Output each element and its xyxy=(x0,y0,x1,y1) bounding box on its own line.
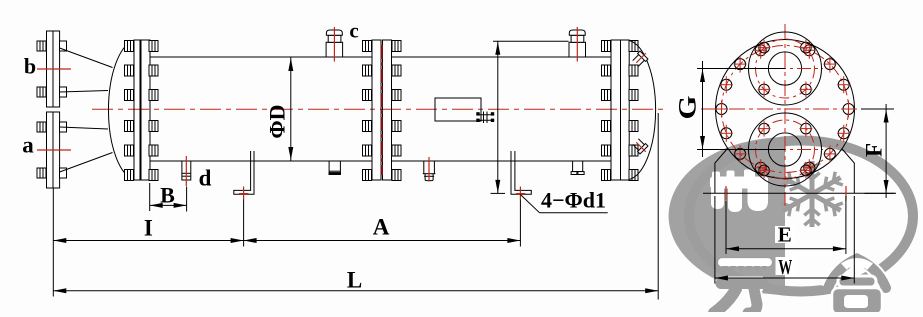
right head lower diagonal nozzle xyxy=(632,138,650,156)
end view saddle xyxy=(715,149,854,194)
end view anchor bolt marks xyxy=(725,186,727,201)
nozzle a bolts xyxy=(37,122,46,132)
nozzle c1 cap xyxy=(326,30,342,35)
end view base line xyxy=(703,192,896,194)
dimension I line xyxy=(53,240,243,242)
nozzle d centerline xyxy=(185,156,187,186)
nozzle b centerline xyxy=(37,68,71,70)
end view shell flange bolt holes xyxy=(715,42,855,176)
main shell centerline xyxy=(92,108,664,110)
svg-text:G: G xyxy=(675,96,702,120)
watermark character wan xyxy=(714,258,773,314)
svg-text:c: c xyxy=(349,19,358,43)
dimension W line xyxy=(715,277,854,279)
watermark gray left half of ellipse logo xyxy=(669,137,785,295)
left flange bolts xyxy=(125,41,134,52)
nozzle b bolts xyxy=(37,41,46,51)
nozzle a centerline xyxy=(37,149,71,151)
leader 4-Phid1 xyxy=(520,195,539,213)
svg-text:ΦD: ΦD xyxy=(265,104,290,138)
dimension E line xyxy=(726,248,846,250)
nozzle b flange plates xyxy=(47,31,54,107)
left flange plates xyxy=(134,40,140,180)
nozzle c2 neck xyxy=(569,42,586,57)
svg-text:4−Φd1: 4−Φd1 xyxy=(541,188,606,213)
nozzle b taper lines xyxy=(60,48,113,68)
svg-text:L: L xyxy=(347,267,362,292)
nameplate rectangle xyxy=(435,98,481,121)
nozzle c2 cap xyxy=(569,30,585,35)
end view top nozzle flange bolt holes xyxy=(758,40,813,98)
nozzle c1 centerline xyxy=(333,27,335,62)
nozzle c1 pipe xyxy=(328,35,341,42)
svg-text:d: d xyxy=(199,166,212,191)
dimension L line xyxy=(53,290,658,292)
dimension A extension lines xyxy=(243,200,245,247)
svg-text:I: I xyxy=(144,216,153,241)
svg-text:B: B xyxy=(160,183,175,208)
end view vertical centerline xyxy=(784,24,786,206)
end view bottom nozzle flange bolt holes xyxy=(758,121,813,179)
dimension G extension lines xyxy=(697,68,785,70)
middle flange gasket centerline xyxy=(381,45,383,175)
right flange bolts xyxy=(602,41,611,52)
end view bottom nozzle flange bolt circle xyxy=(756,120,815,179)
watermark ellipse ring xyxy=(689,141,913,292)
bottom stub 2 centerline xyxy=(428,157,430,182)
dimension A line xyxy=(244,240,521,242)
nozzle c2 centerline xyxy=(576,27,578,62)
end view bottom nozzle flange outer circle xyxy=(749,113,822,186)
dimension W extension lines xyxy=(714,196,716,284)
dimension H top extension xyxy=(493,40,569,42)
watermark white crown cutout (stylized W) xyxy=(710,170,768,213)
end view top nozzle flange bolt circle xyxy=(756,39,815,98)
end view top nozzle flange centerline xyxy=(747,68,823,70)
dimension H line xyxy=(497,41,499,193)
bottom stub 2 (drain with flange) xyxy=(424,161,435,174)
bottom stub 1 xyxy=(329,161,340,174)
end view horizontal centerline xyxy=(701,108,860,110)
dimension G line xyxy=(702,61,704,157)
saddle bracket 2 xyxy=(511,151,531,194)
nozzle a flange plates xyxy=(47,112,54,188)
right dished head xyxy=(629,41,655,180)
shell bottom line xyxy=(150,160,372,162)
svg-text:a: a xyxy=(22,133,34,158)
shell top line xyxy=(150,56,372,58)
nozzle d body xyxy=(182,161,191,180)
svg-text:E: E xyxy=(778,223,792,247)
left dished head xyxy=(108,41,134,180)
dimension B line xyxy=(150,204,187,206)
dimension F extension lines xyxy=(861,108,894,110)
watermark character he xyxy=(828,258,886,314)
bracket 1 anchor cross xyxy=(239,193,249,195)
end view top nozzle flange bore xyxy=(768,52,801,85)
svg-text:W: W xyxy=(778,255,792,279)
end view shell flange bolt circle xyxy=(722,46,849,173)
dimension L extension lines xyxy=(52,189,54,297)
nozzle c2 pipe xyxy=(571,35,584,42)
bottom stub 3 xyxy=(573,161,583,172)
dimension E extension lines xyxy=(725,201,727,254)
dimension H bottom extension xyxy=(491,192,506,194)
right head upper diagonal nozzle xyxy=(632,49,650,67)
watermark snowflake xyxy=(781,161,843,227)
nameplate bracket symbol xyxy=(476,112,494,124)
saddle bracket 1 xyxy=(234,151,254,194)
dimension B extension lines xyxy=(149,183,151,211)
svg-text:b: b xyxy=(24,54,36,79)
nozzle c1 neck xyxy=(326,42,343,57)
dimension PhiD line xyxy=(290,58,292,161)
end view top nozzle flange outer circle xyxy=(749,32,822,105)
middle flange pair plates xyxy=(372,40,381,180)
end view bottom nozzle flange bore xyxy=(768,133,801,166)
bracket 2 anchor cross xyxy=(516,193,526,195)
svg-text:A: A xyxy=(373,215,390,240)
nozzle a taper lines xyxy=(60,127,108,129)
right flange plates xyxy=(611,40,621,180)
end view shell flange outer circle xyxy=(716,40,855,179)
dimension F line xyxy=(885,104,887,198)
end view bottom nozzle flange centerline xyxy=(747,149,823,151)
svg-text:F: F xyxy=(862,143,887,157)
middle flange bolts xyxy=(363,41,372,52)
